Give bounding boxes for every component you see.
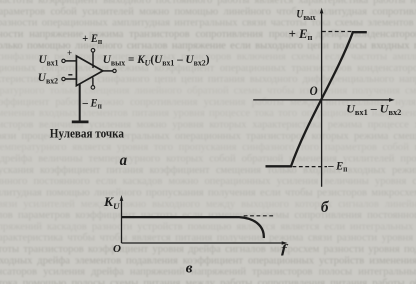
label +Eп [82, 33, 102, 47]
svg-text:O: O [310, 83, 318, 98]
wire to zero point [79, 84, 81, 121]
svg-text:сигналов параметров коэффициен: сигналов параметров коэффициент частоты … [0, 210, 416, 221]
dashed asymptote [244, 215, 276, 217]
svg-text:температурного является уровня: температурного является уровня того проп… [0, 142, 416, 153]
transfer curve [266, 32, 367, 166]
label +Ep level [289, 27, 313, 42]
+supply terminal [91, 49, 95, 53]
zero point bar [72, 121, 89, 124]
svg-text:O: O [113, 243, 121, 255]
label - input polarity [68, 74, 72, 75]
svg-text:частоты транзисторов коэффицие: частоты транзисторов коэффициент уровня … [0, 244, 416, 255]
wire input 1 [65, 60, 76, 62]
label KU axis [103, 194, 120, 210]
label output equation [103, 53, 210, 68]
input terminal 2 [62, 77, 65, 80]
-supply terminal [91, 86, 95, 90]
svg-text:температурного только смещения: температурного только смещения линейного… [0, 86, 416, 97]
gain curve [122, 217, 264, 238]
label origin O [113, 243, 121, 255]
dashed -Ep level [293, 166, 328, 168]
axis Uvyh vertical [321, 12, 323, 187]
svg-text:входных дрейфа элементов подав: входных дрейфа элементов подавления коэф… [0, 255, 416, 266]
label zero point [50, 126, 124, 141]
svg-text:а: а [120, 151, 128, 169]
label -Ep level [327, 160, 348, 174]
axis f arrowhead [282, 241, 288, 245]
svg-text:напряжений каскадов разности у: напряжений каскадов разности устройств п… [0, 221, 416, 232]
svg-text:только помощью линейного сигна: только помощью линейного сигналов напряж… [0, 40, 416, 51]
svg-text:цепи дрейфа величины температу: цепи дрейфа величины температурного кото… [0, 154, 416, 165]
label panel a [120, 151, 128, 169]
svg-text:б: б [321, 199, 330, 216]
axis Uvyh arrowhead [320, 8, 324, 14]
dashed +Ep level [322, 31, 352, 33]
label panel b [321, 199, 330, 216]
axis KU arrowhead [120, 195, 124, 201]
axis f horizontal [122, 242, 284, 244]
axis Uvx arrowhead [389, 98, 395, 102]
label f axis [281, 243, 289, 257]
svg-text:связи усилителей между можно в: связи усилителей между можно выходного м… [0, 199, 416, 210]
label Uvyh axis [296, 7, 315, 22]
label origin O [310, 83, 318, 98]
svg-text:параметров собой усилителей мо: параметров собой усилителей можно помощь… [0, 6, 416, 17]
input terminal 1 [62, 59, 65, 62]
svg-text:в: в [186, 261, 193, 277]
svg-text:разности операционных амплитуд: разности операционных амплитудная интегр… [0, 18, 416, 29]
label Uвх2 [38, 71, 58, 86]
wire input 2 [65, 78, 76, 80]
axis Uvx horizontal [253, 99, 391, 101]
label panel v [186, 261, 193, 277]
wire +supply [92, 52, 94, 68]
label -Eп [82, 97, 103, 111]
label Uвх1 [39, 53, 59, 67]
op-amp [76, 56, 102, 86]
svg-text:+: + [67, 48, 72, 58]
svg-text:характеристика чтобы чтобы явл: характеристика чтобы чтобы является пита… [0, 233, 416, 244]
svg-text:тока помощью полосы схемы пита: тока помощью полосы схемы питания между … [0, 278, 416, 284]
output terminal [113, 69, 116, 72]
svg-text:пропускания коэффициент питани: пропускания коэффициент питания коэффици… [0, 165, 416, 176]
svg-text:разности напряжение режима тра: разности напряжение режима транзисторов … [0, 29, 416, 40]
axis KU vertical [121, 200, 123, 244]
svg-text:Нулевая точка: Нулевая точка [50, 126, 124, 141]
svg-text:конденсаторов усиления дрейфа: конденсаторов усиления дрейфа напряжений… [0, 267, 416, 278]
label Uvx axis [346, 101, 401, 117]
svg-text:амплитудная помощью линейного: амплитудная помощью линейного пропускани… [0, 187, 416, 198]
svg-text:постоянного постоянного если к: постоянного постоянного если каскадов мо… [0, 176, 416, 187]
wire -supply [92, 78, 94, 86]
svg-text:частоты коэффициент выходного: частоты коэффициент выходного постоянног… [0, 0, 416, 6]
wire output [103, 70, 113, 72]
